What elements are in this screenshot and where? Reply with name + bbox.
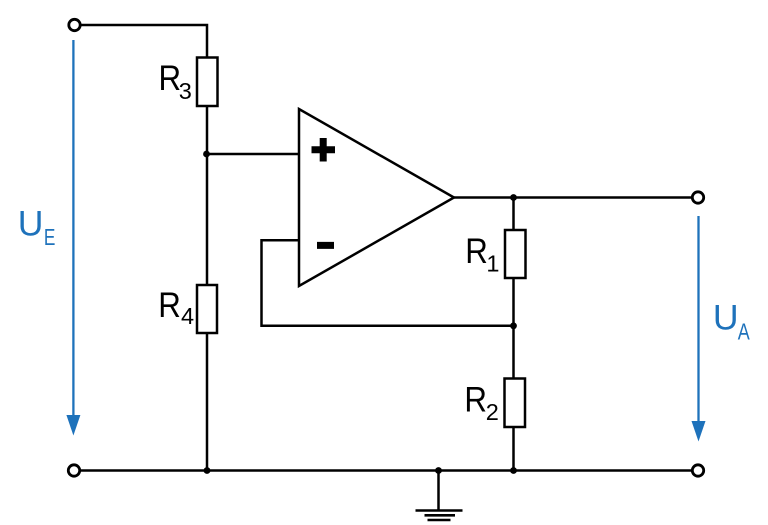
wire node A to op-amp + input [207,153,299,156]
wire R1 bottom to feedback node [512,278,515,326]
label U_E [18,204,56,250]
svg-text:U: U [18,204,44,244]
junction feedback / R1-R2 node [510,322,517,329]
svg-text:R: R [158,285,181,325]
svg-text:1: 1 [486,251,499,277]
svg-text:R: R [464,379,487,419]
label R1 [465,231,499,277]
label R4 [158,285,194,329]
junction output node [510,194,517,201]
wire R4 bottom to ground rail [206,333,209,471]
voltage arrow U_E [66,40,80,436]
label R2 [464,379,498,424]
junction ground/bottom rail [435,467,442,474]
op-amp plus input symbol [312,138,336,162]
svg-text:R: R [465,231,488,271]
svg-text:E: E [44,224,56,250]
resistor R4 [197,285,217,333]
voltage arrow U_A [692,216,706,442]
junction R2/bottom rail [510,467,517,474]
wire R2 bottom to bottom rail [512,427,515,471]
wire top: input terminal to R3 top [81,25,208,58]
wire op-amp output to output terminal [454,196,692,199]
label R3 [159,58,192,104]
resistor R3 [197,58,218,107]
ground symbol [416,471,463,521]
label U_A [713,298,750,345]
junction R4/bottom rail [204,467,211,474]
terminal top-right output [692,192,703,203]
op-amp U1 triangle [299,109,454,286]
svg-text:U: U [713,298,739,338]
terminal bottom-right [692,465,703,476]
node A junction (non-inverting input) [203,151,210,158]
resistor R1 [505,230,526,278]
wire output node to R1 top [512,198,515,231]
terminal bottom-left [68,465,79,476]
svg-text:R: R [159,58,182,98]
wire node A down to R4 top [206,154,209,285]
resistor R2 [505,379,526,428]
wire feedback node to R2 top [512,326,515,379]
wire bottom rail [81,469,692,472]
svg-text:A: A [738,319,750,345]
wire R3 bottom to node A [206,106,209,154]
svg-text:4: 4 [181,303,194,329]
svg-text:2: 2 [486,399,499,425]
svg-text:3: 3 [179,78,192,104]
wire inverting input (feedback top) [262,240,514,325]
terminal top-left input [69,19,80,30]
op-amp minus input symbol [317,242,334,249]
